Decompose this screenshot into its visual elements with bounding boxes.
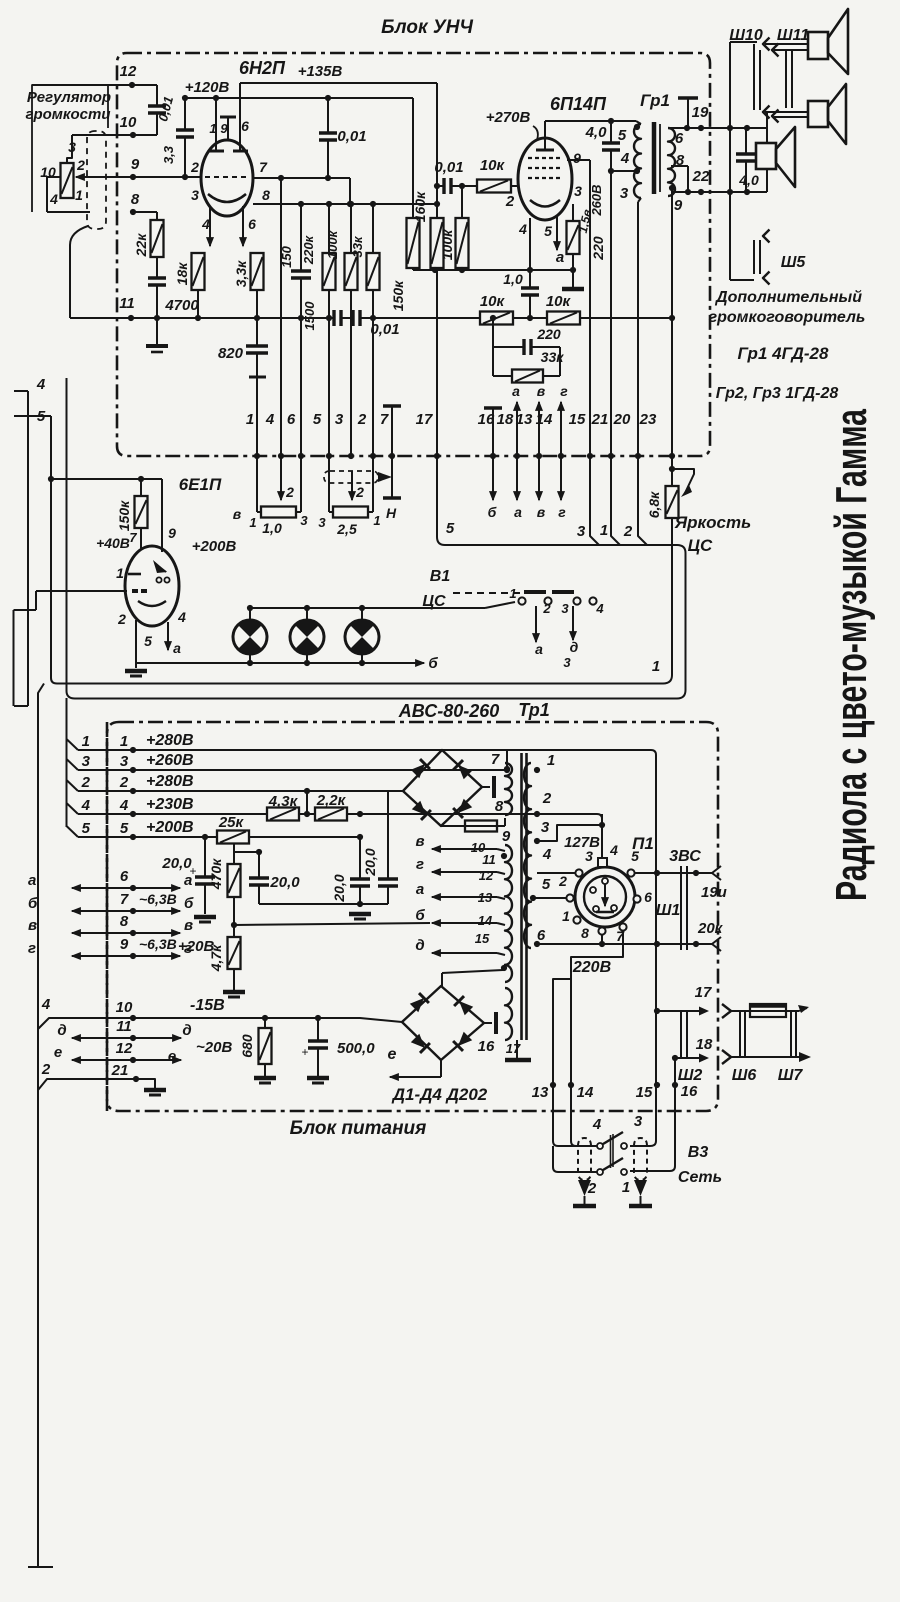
svg-text:5: 5 bbox=[544, 223, 552, 239]
resistor 470к bbox=[233, 843, 235, 864]
svg-text:11: 11 bbox=[482, 852, 496, 867]
wire node 8 bbox=[133, 211, 157, 213]
svg-text:д: д bbox=[182, 1022, 191, 1039]
svg-text:220: 220 bbox=[536, 326, 561, 342]
speaker wires and chevrons Ш10/Ш11 bbox=[763, 38, 770, 51]
line through speaker 3 bbox=[766, 112, 768, 143]
block border UNCH (Блок УНЧ) dash-dot frame bbox=[117, 53, 710, 456]
mains bottom wire with arrow bbox=[731, 1056, 799, 1058]
svg-text:в: в bbox=[415, 833, 424, 850]
svg-text:4: 4 bbox=[49, 191, 58, 207]
svg-text:2: 2 bbox=[81, 774, 91, 791]
capacitor 150 bbox=[300, 204, 302, 271]
svg-text:г: г bbox=[416, 856, 424, 873]
lamps Л1 Л2 Л3 bbox=[233, 620, 267, 654]
svg-text:220: 220 bbox=[590, 236, 606, 261]
svg-text:1: 1 bbox=[600, 522, 608, 539]
Гр1 core bbox=[652, 122, 657, 194]
svg-text:2,5: 2,5 bbox=[336, 521, 357, 537]
svg-text:Гр1 4ГД-28: Гр1 4ГД-28 bbox=[738, 344, 829, 363]
svg-text:9: 9 bbox=[168, 525, 176, 541]
svg-text:5: 5 bbox=[120, 820, 129, 837]
wire pot left terminal bbox=[47, 176, 61, 178]
wire pin7 branch down to pot pin 4 bbox=[280, 178, 282, 456]
svg-text:21: 21 bbox=[591, 411, 609, 428]
wire tap 8 to node 22 bbox=[671, 165, 688, 167]
svg-text:10: 10 bbox=[120, 114, 137, 131]
bridge bottom wire with fuse to pin 9 bbox=[441, 825, 465, 827]
svg-text:7: 7 bbox=[129, 530, 137, 545]
svg-text:19: 19 bbox=[692, 104, 709, 121]
row2 branch from row1 corner to pin 7 bbox=[506, 750, 508, 770]
terminal 8 to tap6 node bbox=[601, 935, 603, 944]
В3 switch capsule 1 bbox=[578, 1138, 591, 1180]
svg-text:18: 18 bbox=[497, 411, 514, 428]
svg-text:19и: 19и bbox=[701, 884, 727, 901]
wire tap 4 of Гр1 bbox=[611, 170, 640, 172]
svg-text:7: 7 bbox=[259, 159, 268, 175]
capacitor 4700 bbox=[156, 257, 158, 278]
line 127В down to П1 terminal 4 bbox=[601, 814, 603, 858]
svg-text:2: 2 bbox=[285, 484, 294, 500]
row3 drop to 4,3к/2,2к junction bbox=[306, 791, 308, 814]
svg-text:4700: 4700 bbox=[164, 297, 199, 314]
svg-text:д: д bbox=[570, 639, 579, 655]
В3 plugs to ground bbox=[578, 1180, 591, 1196]
svg-text:+270В: +270В bbox=[486, 109, 531, 126]
svg-text:220к: 220к bbox=[301, 234, 316, 265]
fuse on mains lead bbox=[731, 1010, 750, 1012]
svg-text:7: 7 bbox=[491, 751, 500, 768]
svg-text:Тр1: Тр1 bbox=[518, 700, 550, 720]
svg-text:10к: 10к bbox=[480, 293, 506, 310]
svg-text:Гр2, Гр3 1ГД-28: Гр2, Гр3 1ГД-28 bbox=[716, 385, 839, 402]
svg-text:7: 7 bbox=[120, 891, 129, 908]
svg-text:В3: В3 bbox=[688, 1144, 709, 1161]
svg-text:13: 13 bbox=[532, 1084, 549, 1101]
svg-text:10: 10 bbox=[116, 999, 133, 1016]
6П14П plate lead bbox=[544, 121, 546, 150]
wire node19 speaker side bbox=[727, 125, 733, 131]
svg-text:18: 18 bbox=[696, 1036, 713, 1053]
tone pot 2,5 bbox=[328, 456, 330, 512]
arrow а from 6Е1П bbox=[167, 622, 169, 650]
svg-text:+260В: +260В bbox=[146, 752, 194, 769]
wire -15В (node 10 row) bbox=[38, 1018, 402, 1029]
svg-text:+280В: +280В bbox=[146, 773, 194, 790]
svg-text:Блок питания: Блок питания bbox=[290, 1118, 427, 1139]
svg-text:3: 3 bbox=[585, 848, 593, 864]
svg-text:в: в bbox=[537, 504, 546, 520]
svg-text:3: 3 bbox=[577, 523, 586, 540]
svg-text:3: 3 bbox=[82, 753, 91, 770]
wire rows to winding bbox=[497, 849, 505, 851]
svg-text:8: 8 bbox=[262, 187, 270, 203]
svg-text:-15В: -15В bbox=[190, 997, 225, 1014]
svg-text:а: а bbox=[28, 872, 36, 889]
svg-text:1: 1 bbox=[652, 658, 660, 675]
diode bridge Д1-Д4 Д202 bbox=[402, 986, 484, 1060]
svg-text:~6,3В: ~6,3В bbox=[139, 936, 177, 952]
svg-text:1: 1 bbox=[75, 187, 83, 203]
svg-text:4: 4 bbox=[81, 797, 91, 814]
svg-text:6: 6 bbox=[644, 889, 652, 905]
svg-text:4: 4 bbox=[201, 216, 210, 232]
svg-text:820: 820 bbox=[218, 345, 244, 362]
6Н2П cathode arc bbox=[208, 194, 246, 202]
svg-text:б: б bbox=[184, 895, 194, 912]
svg-text:9: 9 bbox=[131, 156, 140, 173]
svg-text:220В: 220В bbox=[572, 959, 611, 976]
Тр1 left winding heater (10-15) bbox=[505, 845, 512, 982]
svg-text:е: е bbox=[168, 1048, 176, 1065]
svg-text:1: 1 bbox=[373, 513, 380, 528]
connector Ш2 lines bbox=[680, 1011, 682, 1058]
heater rows в г а б д bbox=[432, 848, 497, 850]
svg-text:22: 22 bbox=[692, 168, 710, 185]
resistor 160к-2 on +135 line bbox=[436, 83, 438, 218]
svg-text:13: 13 bbox=[478, 890, 493, 905]
rail +120В bbox=[185, 97, 413, 99]
svg-text:0,01: 0,01 bbox=[370, 321, 399, 338]
svg-text:3ВС: 3ВС bbox=[669, 848, 701, 865]
wire tap3 to 127В line bbox=[537, 825, 602, 841]
svg-text:20,0: 20,0 bbox=[269, 874, 300, 891]
power block left border dash-dot vertical bbox=[106, 722, 109, 1111]
svg-text:3: 3 bbox=[541, 819, 550, 836]
svg-text:16: 16 bbox=[681, 1083, 698, 1100]
svg-text:б: б bbox=[415, 907, 425, 924]
svg-text:в: в bbox=[537, 383, 546, 399]
Гр1 secondary coil bbox=[668, 128, 675, 196]
svg-text:3: 3 bbox=[620, 185, 629, 202]
svg-text:17: 17 bbox=[416, 411, 433, 428]
grid wire 6Е1П bbox=[36, 590, 127, 592]
svg-text:127В: 127В bbox=[564, 834, 600, 851]
stub with bar above node 19 bbox=[687, 99, 689, 128]
svg-text:150к: 150к bbox=[116, 500, 132, 531]
pin 7 line with shaft bars bbox=[391, 406, 393, 498]
rows д and е with arrows bbox=[72, 1037, 140, 1039]
cathode cap 1,0 bbox=[529, 218, 531, 270]
vertical rail left of speakers bbox=[729, 42, 731, 280]
rail x=38 long down to bottom bbox=[38, 684, 44, 1568]
svg-text:Д1-Д4 Д202: Д1-Д4 Д202 bbox=[391, 1085, 488, 1104]
svg-text:+230В: +230В bbox=[146, 796, 194, 813]
svg-text:6: 6 bbox=[537, 927, 546, 944]
svg-text:5: 5 bbox=[313, 411, 322, 428]
svg-text:+: + bbox=[301, 1045, 308, 1059]
svg-text:3,3к: 3,3к bbox=[233, 260, 249, 287]
svg-text:ЦС: ЦС bbox=[688, 536, 713, 555]
svg-text:г: г bbox=[558, 504, 566, 520]
svg-text:а: а bbox=[512, 383, 520, 399]
svg-text:~6,3В: ~6,3В bbox=[139, 891, 177, 907]
node 10 bbox=[130, 132, 136, 138]
svg-text:20,0: 20,0 bbox=[161, 855, 192, 872]
rail +135В bbox=[240, 82, 437, 84]
svg-text:3: 3 bbox=[563, 655, 571, 670]
capacitor 0,01 (volume top) bbox=[156, 85, 158, 106]
svg-text:1: 1 bbox=[246, 411, 254, 428]
svg-text:громкости: громкости bbox=[25, 106, 110, 123]
svg-text:АВС-80-260: АВС-80-260 bbox=[398, 701, 500, 721]
svg-text:9: 9 bbox=[674, 197, 683, 214]
svg-text:150к: 150к bbox=[390, 280, 406, 311]
svg-text:9: 9 bbox=[220, 121, 228, 136]
svg-text:В1: В1 bbox=[430, 568, 451, 585]
svg-text:6: 6 bbox=[675, 130, 684, 147]
bus to ground y=904 bbox=[259, 903, 388, 905]
6Е1П cathode to ground bbox=[135, 620, 137, 663]
svg-text:2: 2 bbox=[542, 790, 552, 807]
wire pin8 row y=204 bbox=[253, 203, 437, 205]
wire y=270 anode loads to cathode node bbox=[413, 269, 573, 271]
combo 220 + 33к bbox=[492, 318, 494, 347]
svg-text:3: 3 bbox=[634, 1113, 643, 1130]
capacitor 0,01 grid bbox=[442, 178, 445, 194]
wire pin7 row y=178 bbox=[253, 177, 350, 179]
svg-text:3: 3 bbox=[120, 753, 129, 770]
rows а б в г with double arrows bbox=[72, 887, 140, 889]
wire bridge left corner to cap4 bbox=[388, 790, 403, 792]
svg-text:12: 12 bbox=[479, 868, 494, 883]
line 16 to В3 capsule2 bottom bbox=[630, 1058, 675, 1171]
svg-text:4: 4 bbox=[518, 221, 527, 237]
svg-text:14: 14 bbox=[478, 913, 493, 928]
wire 17 with arrow bbox=[657, 1010, 700, 1012]
svg-text:Блок УНЧ: Блок УНЧ bbox=[381, 17, 473, 38]
Тр1 left winding upper (7-9) bbox=[505, 763, 512, 815]
arrows up а в г bbox=[516, 402, 518, 456]
bridge2 plus bar bbox=[484, 1022, 492, 1024]
connector Ш5 bbox=[763, 230, 770, 243]
chevrons to speaker 2 bbox=[763, 106, 770, 119]
capacitor 4,0 bbox=[610, 121, 612, 143]
row5 +200В wire with 25к bbox=[78, 836, 217, 838]
capacitor 20,0 #2 bbox=[234, 851, 259, 853]
svg-text:15: 15 bbox=[475, 931, 490, 946]
ground at cluster bbox=[349, 912, 371, 917]
resistor 220к bbox=[328, 204, 330, 253]
svg-text:25к: 25к bbox=[218, 814, 245, 831]
svg-text:13: 13 bbox=[516, 411, 533, 428]
220В path from terminal 7 bbox=[553, 931, 623, 1146]
svg-text:6: 6 bbox=[287, 411, 296, 428]
wire 2 / pin 21 row bbox=[38, 1079, 155, 1090]
wire from 470к/4,7к junction to row б bbox=[234, 923, 430, 925]
svg-text:4: 4 bbox=[609, 842, 618, 858]
svg-text:2: 2 bbox=[355, 484, 364, 500]
diode bridge АВС-80-260 bbox=[403, 750, 482, 826]
svg-text:9: 9 bbox=[502, 828, 511, 845]
pins row A dots bbox=[254, 453, 260, 459]
grid chain wire y=186 bbox=[437, 185, 444, 187]
row1 +280В wire to transformer corner bbox=[78, 750, 656, 1146]
svg-text:а: а bbox=[535, 641, 543, 657]
6Н2П grid dashes bbox=[205, 176, 250, 178]
svg-text:Ш7: Ш7 bbox=[778, 1067, 804, 1084]
step to grid wire of 6Е1П bbox=[13, 610, 15, 706]
capacitor 4,0 speaker bbox=[745, 128, 747, 154]
svg-text:4: 4 bbox=[620, 150, 630, 167]
svg-text:5: 5 bbox=[144, 633, 152, 649]
line 14 to В3 capsule1 top bbox=[571, 957, 597, 1146]
svg-text:6Е1П: 6Е1П bbox=[179, 475, 222, 494]
svg-text:Гр1: Гр1 bbox=[640, 91, 670, 110]
potentiometer volume R (Регулятор) bbox=[61, 163, 74, 198]
svg-text:4: 4 bbox=[595, 601, 604, 616]
svg-text:б: б bbox=[488, 504, 497, 520]
plate wire to Гр1 bbox=[545, 120, 636, 122]
svg-text:1: 1 bbox=[622, 1179, 630, 1196]
svg-text:Регулятор: Регулятор bbox=[27, 89, 111, 106]
Ш6 Ш7 verticals bbox=[739, 1011, 741, 1057]
bus path from pin17/5 down around to power bundle bbox=[67, 378, 686, 699]
svg-text:10к: 10к bbox=[546, 293, 572, 310]
svg-text:3: 3 bbox=[68, 139, 76, 155]
wire node 19 from secondary top bbox=[668, 127, 767, 129]
svg-text:8: 8 bbox=[581, 925, 589, 941]
capacitor 820 in line to pin 1 bbox=[256, 318, 258, 346]
svg-text:470к: 470к bbox=[208, 858, 224, 890]
line pin 23 / 6,8к line x=672 bbox=[671, 188, 673, 469]
svg-text:1: 1 bbox=[116, 565, 124, 581]
svg-text:260В: 260В bbox=[589, 184, 604, 216]
svg-text:5: 5 bbox=[631, 848, 639, 864]
Тр1 core bbox=[520, 753, 523, 1040]
resistor 3,3к bbox=[251, 253, 264, 290]
svg-text:0,01: 0,01 bbox=[434, 159, 463, 176]
svg-text:д: д bbox=[415, 937, 424, 954]
tube 6Е1П and surroundings bbox=[51, 478, 162, 480]
node 9 bbox=[130, 174, 136, 180]
lamp top wire bbox=[250, 607, 485, 609]
line pin 20 from Гр1 primary bottom bbox=[638, 198, 641, 202]
ground under 220 bbox=[572, 270, 574, 287]
resistor 4,7к bbox=[233, 925, 235, 937]
svg-text:33к: 33к bbox=[541, 349, 565, 365]
tick 5 far left bbox=[14, 415, 51, 417]
svg-text:Ш2: Ш2 bbox=[678, 1067, 703, 1084]
svg-text:3: 3 bbox=[318, 515, 326, 530]
Тр1 left winding lower (15-16) bbox=[505, 988, 512, 1040]
rail 4 (x=28) bbox=[27, 391, 29, 706]
line x=672 from 6,8к down left to rail 51 bbox=[671, 469, 673, 518]
svg-text:21: 21 bbox=[111, 1062, 129, 1079]
cathode resistor 220 bbox=[572, 204, 574, 221]
resistor 10к grid bbox=[477, 180, 511, 193]
Тр1 frame ground pin 17 bbox=[516, 1040, 518, 1058]
svg-text:4: 4 bbox=[177, 609, 186, 625]
svg-text:2: 2 bbox=[41, 1061, 51, 1078]
capacitor 3,3 bbox=[184, 98, 186, 130]
line pin21 down (260В) bbox=[610, 171, 612, 456]
svg-text:Н: Н bbox=[386, 505, 397, 521]
capacitor 20,0 #1 bbox=[204, 837, 206, 877]
svg-text:5: 5 bbox=[618, 127, 627, 144]
wire jog pin7 to y=204 bbox=[349, 178, 351, 204]
svg-text:3,3: 3,3 bbox=[161, 145, 176, 164]
svg-text:а: а bbox=[416, 881, 424, 898]
svg-text:а: а bbox=[184, 872, 192, 889]
svg-text:12: 12 bbox=[116, 1040, 133, 1057]
6П14П grids and cathode bbox=[528, 157, 562, 159]
svg-text:680: 680 bbox=[239, 1034, 255, 1058]
wire node 10 bbox=[72, 134, 157, 136]
svg-text:1: 1 bbox=[209, 121, 216, 136]
resistor 150к bbox=[140, 479, 142, 496]
wire 5-line diagonal joins into bus y=545 bbox=[590, 456, 599, 545]
svg-text:4,0: 4,0 bbox=[585, 124, 608, 141]
svg-text:11: 11 bbox=[116, 1018, 132, 1035]
svg-text:д: д bbox=[57, 1022, 66, 1039]
svg-text:1: 1 bbox=[120, 733, 128, 750]
wire tap5 to П1 terminal 2 bbox=[533, 897, 566, 899]
svg-text:Ш1: Ш1 bbox=[656, 902, 681, 919]
svg-text:10к: 10к bbox=[480, 157, 506, 174]
svg-text:9: 9 bbox=[573, 150, 581, 166]
screen wire pin9 bbox=[567, 159, 590, 161]
svg-text:3: 3 bbox=[191, 187, 199, 203]
svg-text:500,0: 500,0 bbox=[337, 1040, 375, 1057]
wire node 22 from secondary bottom bbox=[671, 188, 673, 192]
svg-text:4,0: 4,0 bbox=[738, 172, 759, 188]
Ш1 wire 20к bbox=[602, 943, 712, 945]
svg-text:2: 2 bbox=[357, 411, 367, 428]
svg-text:17: 17 bbox=[695, 984, 712, 1001]
resistor 33к bbox=[372, 204, 374, 253]
node11 bus y=318 with series caps 1500 and 0,01 bbox=[70, 317, 333, 319]
svg-text:160к: 160к bbox=[412, 191, 428, 222]
tone pot 1,0 and arrows bbox=[256, 456, 258, 512]
svg-text:4: 4 bbox=[265, 411, 275, 428]
svg-text:0,01: 0,01 bbox=[337, 128, 366, 145]
capacitor 0,01 (interstage) bbox=[327, 98, 329, 133]
capacitor 500,0 bbox=[317, 1018, 319, 1041]
svg-text:17: 17 bbox=[506, 1041, 521, 1056]
svg-text:Ш5: Ш5 bbox=[781, 254, 807, 271]
potentiometer 6,8к (Яркость ЦС) bbox=[666, 486, 679, 518]
svg-text:+135В: +135В bbox=[298, 63, 343, 80]
svg-text:е: е bbox=[388, 1046, 397, 1063]
row4 +230В wire with 4,3к and 2,2к bbox=[78, 813, 267, 815]
svg-text:3: 3 bbox=[561, 601, 569, 616]
svg-text:100к: 100к bbox=[439, 229, 455, 260]
bundle diagonals into rows 1 3 2 4 5 bbox=[67, 739, 79, 750]
svg-text:+280В: +280В bbox=[146, 732, 194, 749]
svg-text:18к: 18к bbox=[174, 262, 190, 286]
bus y=318 right part with 10к resistors bbox=[480, 312, 513, 325]
svg-text:8: 8 bbox=[120, 913, 129, 930]
connector Ш6 chevrons bbox=[722, 1004, 731, 1018]
svg-text:1: 1 bbox=[509, 586, 516, 601]
svg-text:5: 5 bbox=[446, 520, 455, 537]
line 13 to В3 capsule1 bottom bbox=[553, 1146, 597, 1172]
resistor 160к-1 (150к) bbox=[412, 98, 414, 218]
node 12 bbox=[129, 82, 135, 88]
bottom hook of long rail bbox=[28, 1566, 53, 1568]
svg-text:22к: 22к bbox=[133, 233, 149, 258]
Ш1 wire 3ВС bbox=[635, 872, 712, 874]
svg-text:2: 2 bbox=[623, 523, 633, 540]
svg-text:г: г bbox=[28, 940, 36, 957]
svg-text:1,0: 1,0 bbox=[262, 520, 282, 536]
svg-text:23: 23 bbox=[639, 411, 657, 428]
svg-text:11: 11 bbox=[119, 295, 135, 312]
svg-text:4: 4 bbox=[36, 376, 46, 393]
wire to pot terminal 3 bbox=[67, 135, 72, 163]
